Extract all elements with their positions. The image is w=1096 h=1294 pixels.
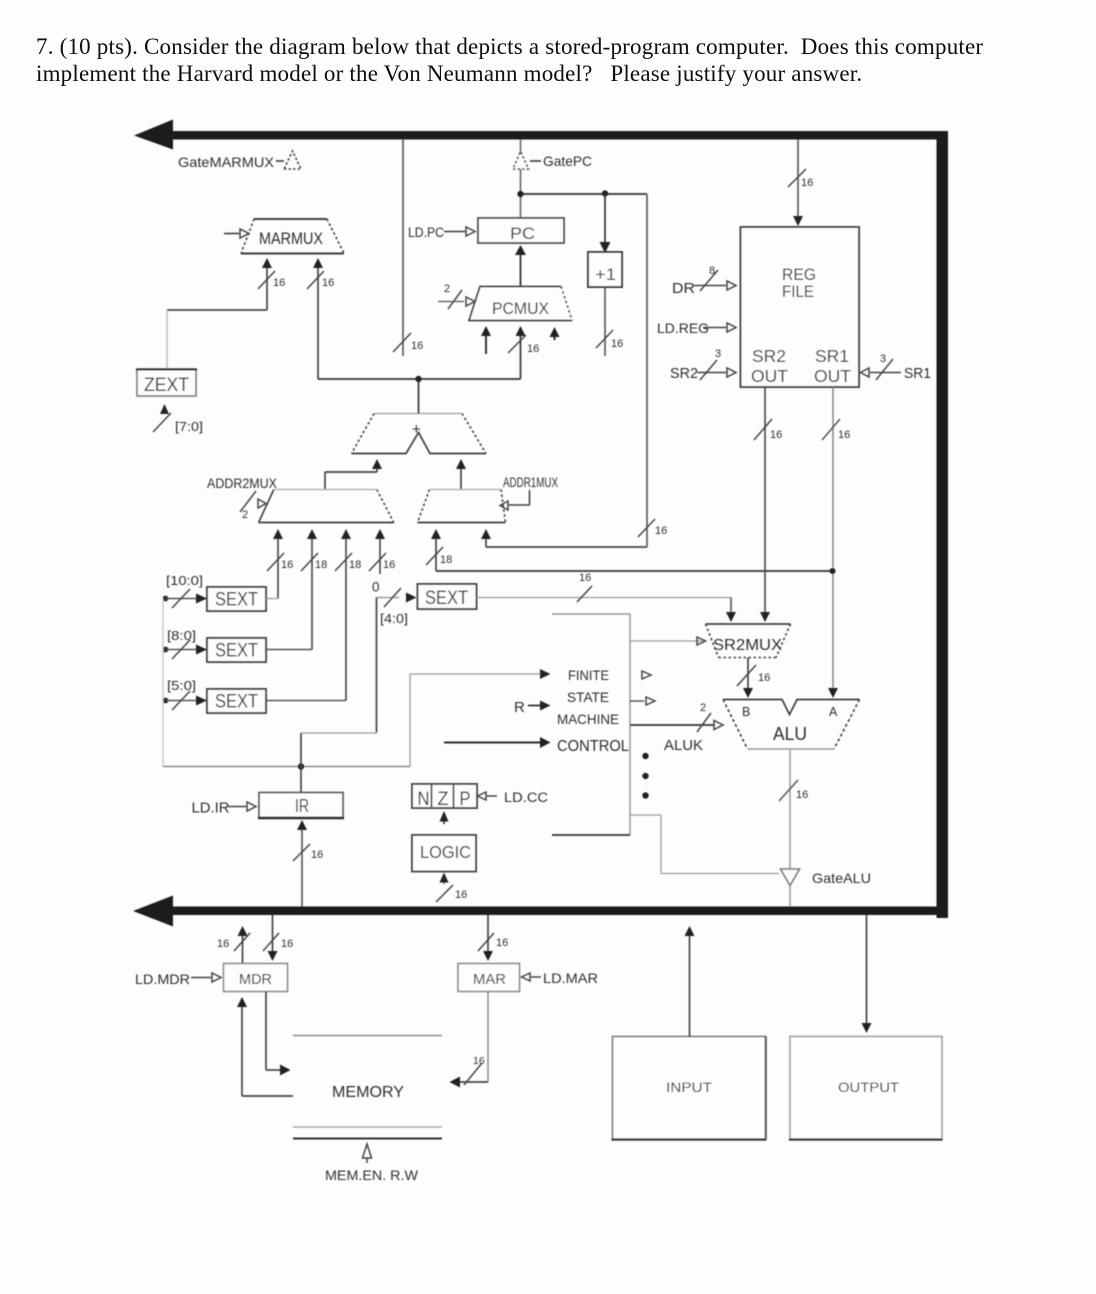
wire LOGIC to NZP <box>443 821 445 824</box>
bus top segment <box>170 131 948 140</box>
gate GateALU triangle <box>781 869 800 886</box>
label SR1 input <box>861 368 870 377</box>
svg-text:16: 16 <box>758 672 770 684</box>
wire ZEXT input [7:0] <box>160 404 169 414</box>
wire bus to LOGIC <box>443 881 445 884</box>
wire ADDR1MUX input left (SR1 line) <box>431 529 441 539</box>
gate GateMARMUX triangle <box>284 151 301 169</box>
svg-text:18: 18 <box>315 559 327 571</box>
svg-text:SR2: SR2 <box>752 346 786 366</box>
svg-text:ADDR2MUX: ADDR2MUX <box>207 476 277 491</box>
svg-text:[7:0]: [7:0] <box>175 419 203 434</box>
svg-text:LD.MAR: LD.MAR <box>543 970 598 986</box>
wire SEXT[4:0] output to SR2MUX <box>477 597 732 599</box>
svg-text:ADDR1MUX: ADDR1MUX <box>503 475 558 490</box>
wire bus to MAR <box>487 915 489 951</box>
adder PLUS <box>352 433 487 454</box>
wire MDR to bus <box>242 936 244 964</box>
wire PCMUX output to PC <box>520 254 522 287</box>
svg-text:2: 2 <box>242 509 248 521</box>
svg-text:GateALU: GateALU <box>812 870 871 886</box>
mux SR2MUX <box>706 623 791 625</box>
svg-text:FINITE: FINITE <box>568 667 609 683</box>
svg-text:16: 16 <box>801 177 813 189</box>
wire bus to REG FILE <box>797 140 799 217</box>
svg-text:SEXT: SEXT <box>215 641 258 662</box>
svg-text:B: B <box>742 705 750 719</box>
wire ALUK output <box>630 724 714 726</box>
gate FSM select output symbol 2 <box>630 700 644 702</box>
wire MDR write path to MEMORY <box>265 992 267 1071</box>
svg-text:MACHINE: MACHINE <box>557 711 619 727</box>
svg-text:[4:0]: [4:0] <box>380 611 408 626</box>
select input of ADDR2MUX <box>240 491 256 512</box>
select input of ADDR1MUX <box>529 490 531 505</box>
register MAR <box>458 964 520 992</box>
wire IR tap rail left <box>162 599 164 767</box>
svg-text:LD.CC: LD.CC <box>504 790 548 805</box>
svg-text:IR: IR <box>295 796 309 816</box>
wire MARMUX input left (from ZEXT) <box>262 258 272 268</box>
wire SR2MUX output to ALU input B <box>747 658 749 689</box>
svg-text:LD.PC: LD.PC <box>408 225 444 240</box>
wire SR2 OUT to SR2MUX <box>764 387 766 612</box>
register file REG FILE <box>741 227 860 387</box>
svg-text:16: 16 <box>527 343 539 355</box>
svg-text:LOGIC: LOGIC <box>420 842 471 862</box>
gate GatePC label <box>530 160 541 162</box>
svg-text:CONTROL: CONTROL <box>557 738 629 755</box>
wire +1 output stub <box>604 287 606 356</box>
wire bus to IR <box>301 830 303 907</box>
svg-text:SEXT: SEXT <box>215 590 258 611</box>
label LD.CC <box>478 792 487 800</box>
adder +1 box <box>588 252 622 287</box>
svg-text:Z: Z <box>438 789 449 810</box>
svg-text:16: 16 <box>770 429 782 441</box>
svg-text:16: 16 <box>473 1055 485 1067</box>
wire adder input left (from ADDR2MUX) <box>372 459 382 469</box>
wire PCMUX input 1 (from bus stub) <box>485 335 487 354</box>
svg-text:ALU: ALU <box>773 724 807 744</box>
register MDR <box>224 964 288 992</box>
mux PCMUX <box>469 287 572 321</box>
wire MAR to MEMORY <box>487 992 489 1083</box>
svg-text:2: 2 <box>700 702 706 714</box>
svg-text:18: 18 <box>349 559 361 571</box>
svg-text:STATE: STATE <box>567 689 609 705</box>
register PC <box>478 218 564 243</box>
wire PCMUX input 2 (adder output) <box>520 336 522 379</box>
wire PC to ADDR1MUX right input <box>646 194 648 547</box>
svg-text:[5:0]: [5:0] <box>167 678 196 693</box>
bus bottom arrowhead <box>133 896 173 927</box>
svg-text:SR2: SR2 <box>670 366 698 382</box>
svg-text:[8:0]: [8:0] <box>167 628 196 643</box>
svg-text:LD.MDR: LD.MDR <box>135 971 190 987</box>
bus top arrowhead <box>134 120 173 150</box>
select input of PCMUX <box>448 290 462 309</box>
svg-text:REG: REG <box>782 266 816 284</box>
svg-text:DR: DR <box>672 281 695 297</box>
svg-text:FILE: FILE <box>782 283 814 301</box>
svg-text:16: 16 <box>411 340 423 352</box>
svg-text:OUT: OUT <box>751 366 788 386</box>
wire IR feed to SEXT[4:0] <box>376 598 378 733</box>
svg-text:SR1: SR1 <box>904 366 931 382</box>
node junction feeding +1 <box>602 190 608 196</box>
svg-text:ZEXT: ZEXT <box>144 375 189 396</box>
extender SEXT [5:0] <box>207 689 266 713</box>
svg-text:16: 16 <box>217 938 229 950</box>
svg-text:16: 16 <box>838 429 850 441</box>
svg-text:16: 16 <box>496 937 508 949</box>
svg-text:GateMARMUX: GateMARMUX <box>178 154 275 170</box>
wire MEMORY read path to MDR <box>241 1007 243 1096</box>
gate FSM select output symbol 1 <box>642 671 651 679</box>
wire into +1 <box>604 194 606 243</box>
svg-text:MDR: MDR <box>239 971 272 988</box>
box ZEXT <box>137 369 196 396</box>
svg-text:+: + <box>412 421 421 438</box>
svg-text:A: A <box>829 705 838 719</box>
wire FSM to GateALU <box>630 814 661 816</box>
svg-text:INPUT: INPUT <box>666 1079 712 1095</box>
svg-text:16: 16 <box>281 559 293 571</box>
svg-text:SEXT: SEXT <box>425 588 468 609</box>
svg-text:MARMUX: MARMUX <box>259 230 323 248</box>
svg-text:MEMORY: MEMORY <box>332 1084 404 1101</box>
wire ADDR2MUX input 4 (constant 0) <box>375 529 385 539</box>
box INPUT <box>613 1037 766 1140</box>
svg-text:N: N <box>418 789 430 810</box>
mux MARMUX <box>241 253 344 255</box>
svg-text:16: 16 <box>383 559 395 571</box>
wire IR to FSM <box>409 674 411 767</box>
register NZP <box>412 784 477 808</box>
svg-text:LD.REG: LD.REG <box>657 321 709 336</box>
svg-text:ALUK: ALUK <box>664 738 703 754</box>
select input of MARMUX <box>224 233 239 235</box>
node junction on PC line <box>517 191 523 197</box>
svg-text:+1: +1 <box>595 265 616 284</box>
wire ADDR2MUX input 2 (SEXT[8:0]) <box>307 529 317 539</box>
wire ADDR2MUX input 3 (SEXT[5:0]) <box>341 529 351 539</box>
svg-text:MEM.EN. R.W: MEM.EN. R.W <box>325 1168 418 1183</box>
wire bus drop stub near PCMUX <box>402 140 404 357</box>
svg-text:PCMUX: PCMUX <box>492 300 549 318</box>
bus right segment <box>937 131 949 918</box>
wire CONTROL input arrow <box>444 742 540 744</box>
gate GatePC triangle <box>513 152 529 170</box>
extender SEXT [4:0] <box>418 584 477 609</box>
select input of SR2MUX <box>697 637 706 645</box>
svg-text:16: 16 <box>611 338 623 350</box>
svg-text:16: 16 <box>455 889 467 901</box>
memory MEMORY <box>293 1035 442 1037</box>
bus bottom segment <box>170 907 948 916</box>
wire SR1 OUT to ALU input A <box>832 387 834 688</box>
svg-text:GatePC: GatePC <box>543 153 592 169</box>
wire adder output net <box>418 379 420 414</box>
wire IR output distribution <box>163 766 410 768</box>
wire ALU output to GateALU <box>789 749 791 869</box>
wire bus to OUTPUT <box>866 915 868 1023</box>
wire bus to MDR <box>272 915 274 951</box>
svg-text:16: 16 <box>322 277 334 289</box>
register IR <box>259 793 343 818</box>
svg-text:3: 3 <box>880 353 886 365</box>
svg-text:PC: PC <box>510 224 535 243</box>
svg-text:3: 3 <box>715 348 721 360</box>
svg-text:16: 16 <box>579 572 591 584</box>
svg-text:16: 16 <box>311 849 323 861</box>
box LOGIC <box>412 835 476 872</box>
wire ADDR2MUX input 1 (SEXT[10:0]) <box>273 529 283 539</box>
svg-text:0: 0 <box>372 580 380 595</box>
wire adder input right (from ADDR1MUX) <box>456 459 466 469</box>
wire MEM.EN control <box>363 1144 372 1158</box>
svg-text:SEXT: SEXT <box>215 692 258 713</box>
svg-text:18: 18 <box>440 554 452 566</box>
svg-text:LD.IR: LD.IR <box>192 800 230 817</box>
state machine FSM box <box>552 613 630 615</box>
wire GatePC vertical (bus to PC) <box>520 140 522 219</box>
svg-text:16: 16 <box>796 789 808 801</box>
svg-text:2: 2 <box>444 283 450 295</box>
svg-text:16: 16 <box>273 277 285 289</box>
wire PC output to +1 and ADDR1MUX <box>521 193 648 195</box>
label LD.MAR <box>522 973 531 981</box>
box OUTPUT <box>790 1037 942 1140</box>
node ellipsis dots <box>642 753 648 759</box>
svg-text:16: 16 <box>655 525 667 537</box>
svg-text:OUT: OUT <box>814 366 851 386</box>
wire INPUT to bus <box>689 935 691 1037</box>
alu ALU <box>723 700 860 715</box>
svg-text:SR1: SR1 <box>815 346 849 366</box>
node adder output junction <box>415 376 421 382</box>
extender SEXT [10:0] <box>207 587 266 611</box>
svg-text:SR2MUX: SR2MUX <box>713 637 782 654</box>
svg-text:16: 16 <box>281 938 293 950</box>
extender SEXT [8:0] <box>207 638 266 662</box>
wire FSM to SR2MUX select <box>630 640 703 642</box>
svg-text:P: P <box>460 789 471 810</box>
svg-text:8: 8 <box>709 265 715 277</box>
wire MARMUX input right (adder output) <box>313 258 323 268</box>
wire PCMUX input 3 (from +1 stub) <box>554 336 556 340</box>
svg-text:MAR: MAR <box>473 971 506 988</box>
svg-text:R: R <box>514 699 525 716</box>
node SR1 junction to ADDR1MUX <box>830 568 836 574</box>
svg-text:[10:0]: [10:0] <box>166 573 203 588</box>
svg-text:OUTPUT: OUTPUT <box>838 1079 899 1095</box>
